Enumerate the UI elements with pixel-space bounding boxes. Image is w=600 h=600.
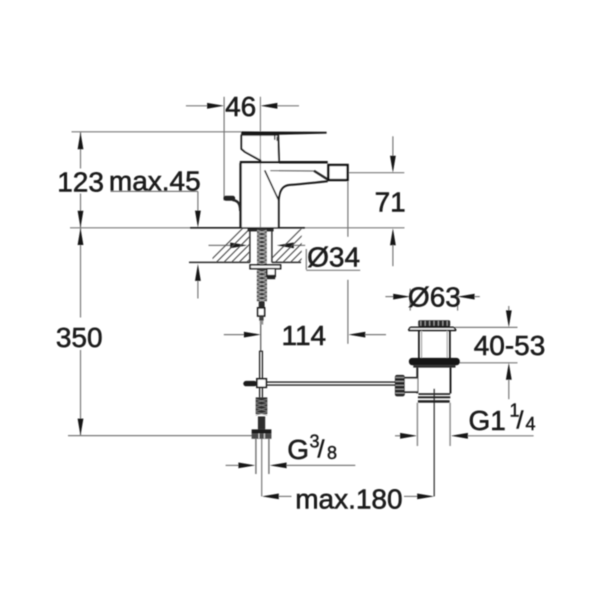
svg-text:max.45: max.45 [109,166,201,197]
svg-text:350: 350 [56,322,103,353]
svg-text:114: 114 [281,320,326,351]
svg-text:123: 123 [57,166,104,197]
svg-text:/: / [318,435,325,463]
svg-text:8: 8 [327,443,337,463]
svg-text:71: 71 [375,187,406,218]
svg-text:Ø63: Ø63 [408,281,461,312]
svg-text:40-53: 40-53 [474,330,546,361]
svg-text:G: G [287,434,309,465]
svg-text:/: / [517,407,524,435]
svg-text:46: 46 [225,91,256,122]
svg-text:G1: G1 [469,405,506,436]
svg-text:max.180: max.180 [295,484,402,515]
svg-text:Ø34: Ø34 [307,242,360,273]
svg-text:4: 4 [526,414,536,434]
